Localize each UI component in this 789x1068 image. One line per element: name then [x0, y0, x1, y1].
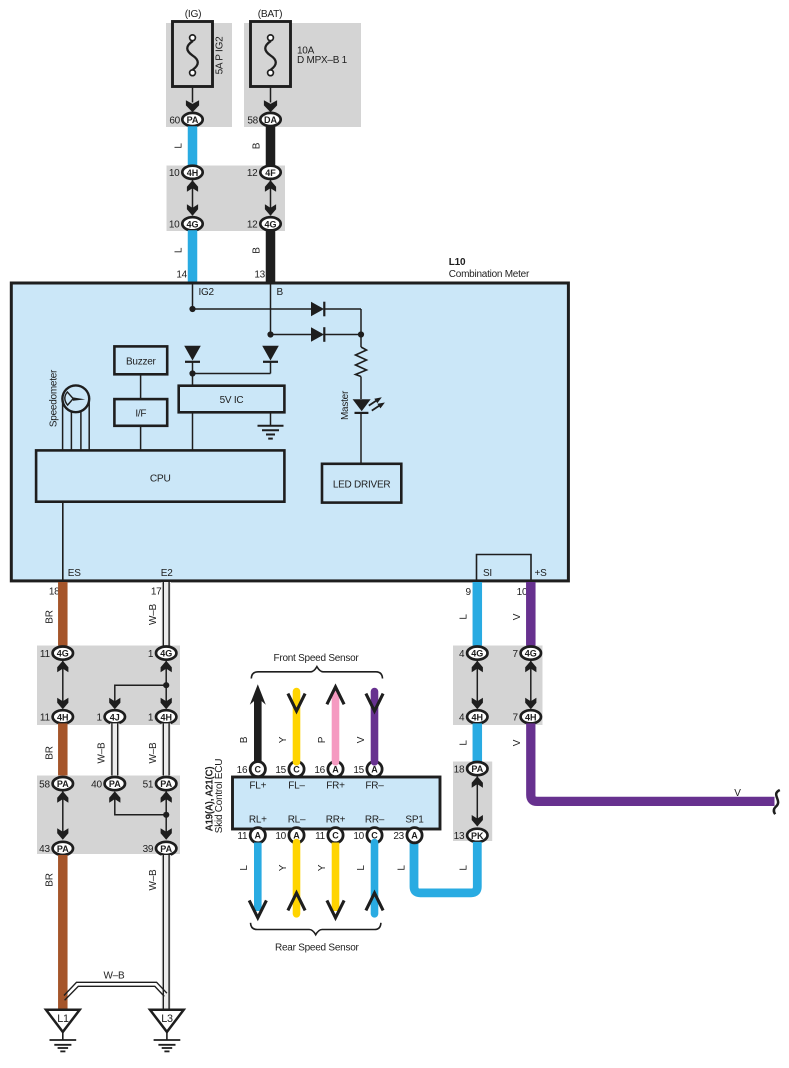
diode D1: [311, 302, 324, 317]
svg-text:D MPX–B 1: D MPX–B 1: [297, 55, 348, 66]
svg-text:4: 4: [459, 713, 465, 724]
5V IC block: [179, 386, 285, 413]
junction wire PA-PK: [476, 777, 478, 826]
svg-text:(BAT): (BAT): [258, 9, 283, 20]
svg-text:10: 10: [169, 168, 180, 179]
svg-text:51: 51: [143, 779, 154, 790]
connector PA pin 39: [156, 842, 176, 855]
svg-text:L: L: [356, 865, 367, 871]
svg-text:11: 11: [315, 831, 326, 842]
svg-text:L: L: [239, 865, 250, 871]
svg-text:I/F: I/F: [135, 408, 146, 419]
connector 4G pin 10: [182, 217, 202, 230]
connector PA pin 40: [105, 777, 125, 790]
svg-text:Rear Speed Sensor: Rear Speed Sensor: [275, 943, 360, 954]
svg-text:BR: BR: [45, 746, 56, 759]
svg-text:Skid Control ECU: Skid Control ECU: [214, 759, 225, 833]
connector 4F pin 12: [260, 166, 280, 179]
arrow into PA 40: [109, 791, 120, 803]
wire L blue SI to 4G: [473, 582, 483, 646]
arrow into 4G: [57, 661, 68, 673]
arrow into PA 39: [161, 828, 172, 840]
svg-text:C: C: [332, 831, 339, 841]
svg-text:13: 13: [254, 270, 265, 281]
diode D3 on IG2 line: [184, 346, 201, 362]
svg-text:BR: BR: [45, 873, 56, 886]
svg-text:A: A: [411, 831, 418, 841]
arrow into 4H: [472, 698, 483, 710]
pin circle 15 C: [289, 762, 304, 777]
svg-text:58: 58: [247, 115, 258, 126]
svg-text:Y: Y: [317, 864, 328, 871]
svg-text:PA: PA: [187, 115, 199, 125]
arrow into PA 43: [57, 828, 68, 840]
svg-text:L1: L1: [57, 1013, 69, 1025]
wire D4 down: [270, 362, 272, 374]
arrow into PA 51: [161, 791, 172, 803]
svg-text:A: A: [332, 765, 339, 775]
brace front speed sensor: [251, 667, 382, 679]
svg-text:Front Speed Sensor: Front Speed Sensor: [274, 653, 360, 664]
connector 4J pin 1: [105, 710, 125, 723]
diode D4 on B line: [262, 346, 279, 362]
svg-text:60: 60: [169, 115, 180, 126]
svg-text:W–B: W–B: [96, 742, 107, 764]
fuse block 5A P IG2: [166, 22, 232, 128]
speedometer wires to CPU: [63, 400, 90, 450]
svg-text:4G: 4G: [57, 649, 69, 659]
svg-text:IG2: IG2: [199, 287, 215, 298]
svg-text:1: 1: [148, 713, 154, 724]
svg-text:ES: ES: [68, 568, 81, 579]
svg-text:SI: SI: [483, 568, 492, 579]
ground of 5V IC: [258, 426, 284, 439]
svg-text:Y: Y: [278, 736, 289, 743]
svg-text:BR: BR: [45, 610, 56, 623]
junction wire 51PA-39PA: [165, 792, 167, 840]
svg-text:W–B: W–B: [148, 603, 159, 625]
wire right vertical: [360, 309, 362, 347]
arrow into PA 58: [57, 791, 68, 803]
wire D3 to 5V IC: [192, 362, 194, 386]
pin circle 11 A: [250, 828, 265, 843]
svg-text:E2: E2: [161, 568, 173, 579]
arrow into 4G: [187, 204, 198, 216]
wire fuse1 to connector PA: [192, 87, 194, 103]
svg-text:V: V: [512, 613, 523, 620]
arrow into 4J: [109, 698, 120, 710]
arrow chevron up FR+: [327, 687, 344, 704]
arrow chevron down FR-: [366, 694, 383, 711]
svg-text:16: 16: [237, 765, 248, 776]
arrow chevron down RR+: [327, 900, 344, 917]
wire B black FL+ arrow up: [250, 684, 266, 762]
svg-text:1: 1: [96, 713, 102, 724]
svg-text:A: A: [255, 831, 262, 841]
connector PA pin 43: [53, 842, 73, 855]
connector band left PA: [37, 776, 180, 855]
svg-text:1: 1: [148, 649, 154, 660]
branch wire to 4J: [115, 685, 166, 707]
svg-text:RR–: RR–: [365, 814, 385, 825]
wire BR pin18 to 4G: [58, 582, 68, 646]
speedometer gauge: [62, 385, 89, 412]
svg-text:L: L: [458, 865, 469, 871]
wire D2 to node: [324, 334, 361, 336]
connector DA pin 58: [260, 113, 280, 126]
svg-text:PA: PA: [57, 779, 69, 789]
wire D4 to D3 node: [193, 373, 271, 375]
svg-text:17: 17: [151, 587, 162, 598]
I/F block: [114, 399, 167, 426]
connector 4H pin 11: [53, 710, 73, 723]
pin circle 10 C: [367, 828, 382, 843]
svg-text:RL–: RL–: [288, 814, 306, 825]
node diode join: [358, 331, 364, 337]
pin B internal wire: [270, 283, 272, 335]
svg-text:FL+: FL+: [249, 780, 266, 791]
wire B to diode D2: [271, 334, 312, 336]
junction wire 4G-4H violet col: [530, 661, 532, 709]
svg-text:4G: 4G: [186, 219, 198, 229]
connector PA pin 58: [53, 777, 73, 790]
svg-text:DA: DA: [264, 115, 277, 125]
svg-text:CPU: CPU: [150, 473, 171, 484]
arrow into PA: [472, 776, 483, 788]
connector PA pin 18: [467, 762, 487, 775]
svg-text:16: 16: [314, 765, 325, 776]
wire W-B 4H to PA: [161, 723, 171, 777]
svg-text:4G: 4G: [264, 219, 276, 229]
connector PA pin 51: [156, 777, 176, 790]
connector PK pin 13: [467, 829, 487, 842]
wire BR 4H to PA: [58, 723, 68, 777]
wire B black 4G to pin 13: [266, 230, 276, 283]
svg-text:40: 40: [91, 779, 102, 790]
CPU block: [36, 450, 284, 501]
wire W-B PA to ground L3: [161, 855, 171, 1011]
arrow chevron up RL-: [288, 893, 305, 910]
svg-text:18: 18: [454, 764, 465, 775]
wire P pink FR+: [332, 693, 340, 762]
svg-text:13: 13: [454, 831, 465, 842]
arrow into 4F: [265, 180, 276, 192]
svg-text:10: 10: [169, 220, 180, 231]
connector band right 4G/4H: [453, 646, 543, 726]
arrow into PA pin 60: [186, 100, 199, 112]
pin circle 23 A: [407, 828, 422, 843]
svg-text:PA: PA: [471, 764, 483, 774]
wire W-B link between grounds: [64, 982, 167, 1000]
svg-text:B: B: [277, 287, 284, 298]
svg-text:11: 11: [40, 649, 51, 660]
svg-text:23: 23: [393, 831, 404, 842]
connector band 4H/4F to 4G/4G: [167, 166, 286, 232]
svg-text:A: A: [371, 765, 378, 775]
wire buzzer to I/F: [140, 374, 142, 399]
svg-text:RL+: RL+: [249, 814, 267, 825]
svg-text:14: 14: [176, 270, 187, 281]
svg-text:15: 15: [275, 765, 286, 776]
arrow into 4H: [187, 180, 198, 192]
svg-text:B: B: [252, 247, 263, 254]
pin circle 16 A: [328, 762, 343, 777]
svg-text:B: B: [252, 142, 263, 149]
svg-text:C: C: [255, 765, 262, 775]
connector 4G pin 11: [53, 647, 73, 660]
svg-text:PA: PA: [57, 844, 69, 854]
wire L blue RL+: [254, 843, 262, 912]
svg-text:L: L: [396, 865, 407, 871]
svg-text:7: 7: [512, 713, 518, 724]
svg-text:Master: Master: [340, 390, 351, 420]
svg-text:L10: L10: [449, 257, 466, 268]
svg-text:4F: 4F: [265, 168, 276, 178]
svg-text:11: 11: [237, 831, 248, 842]
svg-text:4H: 4H: [57, 712, 69, 722]
svg-text:B: B: [239, 736, 250, 743]
brace rear speed sensor: [251, 923, 381, 935]
branch wire 40PA to node: [115, 793, 166, 815]
svg-text:4G: 4G: [525, 649, 537, 659]
svg-text:12: 12: [247, 168, 258, 179]
wire L blue 4G to pin 14: [188, 230, 198, 283]
connector band right PA/PK: [453, 762, 492, 842]
svg-text:L: L: [174, 247, 185, 253]
svg-text:(IG): (IG): [185, 9, 202, 20]
wire 5V IC to ground: [270, 412, 272, 425]
node 40PA join: [163, 812, 169, 818]
connector 4H pin 4: [467, 710, 487, 723]
svg-text:10: 10: [353, 831, 364, 842]
svg-text:4H: 4H: [160, 712, 172, 722]
pin circle 10 A: [289, 828, 304, 843]
svg-text:C: C: [293, 765, 300, 775]
svg-text:15: 15: [353, 765, 364, 776]
svg-text:V: V: [356, 736, 367, 743]
svg-text:PA: PA: [160, 779, 172, 789]
svg-text:4H: 4H: [187, 168, 199, 178]
wire 5V IC to CPU: [192, 412, 194, 450]
svg-text:11: 11: [40, 713, 51, 724]
SI sub-box: [477, 555, 532, 581]
arrow chevron up RR-: [366, 893, 383, 910]
wire Y yellow RR+: [332, 843, 340, 912]
resistor R1: [356, 347, 367, 377]
svg-text:58: 58: [39, 779, 50, 790]
junction wire 4G-4H mid: [165, 661, 167, 709]
junction wire 4G-4H left: [62, 661, 64, 709]
pin IG2 internal wire: [192, 283, 194, 309]
wire L blue PA to 4H: [188, 126, 198, 166]
wire CPU to pin ES: [62, 502, 64, 581]
connector band left 4G/4H: [37, 646, 180, 726]
junction wire 58PA-43PA: [62, 792, 64, 840]
svg-text:7: 7: [512, 649, 518, 660]
buzzer block: [114, 346, 167, 374]
svg-text:4H: 4H: [525, 712, 537, 722]
wire BR PA to ground L1: [58, 855, 68, 1011]
ground L3: [150, 1010, 184, 1052]
arrow chevron down RL+: [249, 900, 266, 917]
svg-text:10: 10: [275, 831, 286, 842]
svg-text:4G: 4G: [160, 649, 172, 659]
junction wire 4G-4H blue col: [476, 661, 478, 709]
svg-text:+S: +S: [535, 568, 548, 579]
node B junction: [267, 331, 273, 337]
arrow into 4G mid: [161, 661, 172, 673]
fuse block 10A D MPX-B 1: [244, 22, 361, 128]
svg-text:W–B: W–B: [148, 869, 159, 891]
wire W-B pin17 to 4G: [161, 582, 171, 646]
svg-text:W–B: W–B: [104, 970, 126, 981]
pin circle 16 C: [250, 762, 265, 777]
svg-text:L3: L3: [161, 1013, 173, 1025]
arrow into 4G: [472, 661, 483, 673]
wire V violet FR-: [371, 692, 379, 762]
LED Master: [353, 397, 385, 413]
svg-text:4G: 4G: [471, 649, 483, 659]
svg-text:4: 4: [459, 649, 465, 660]
wire Y yellow FL-: [293, 692, 301, 762]
svg-text:LED DRIVER: LED DRIVER: [333, 479, 391, 490]
svg-text:RR+: RR+: [326, 814, 346, 825]
svg-text:L: L: [458, 614, 469, 620]
arrow into 4H violet: [525, 698, 536, 710]
svg-text:5A P IG2: 5A P IG2: [215, 36, 226, 75]
svg-text:V: V: [734, 788, 741, 799]
svg-text:FL–: FL–: [288, 780, 305, 791]
connector 4H pin 1: [156, 710, 176, 723]
svg-text:FR+: FR+: [326, 780, 345, 791]
arrow into 4H mid: [161, 698, 172, 710]
wire LED to LED DRIVER: [360, 414, 362, 464]
wire fuse2 to connector DA: [270, 87, 272, 103]
svg-text:L: L: [458, 740, 469, 746]
ground L1: [46, 1010, 80, 1052]
wire W-B 4J to PA: [110, 723, 120, 777]
pin circle 11 C: [328, 828, 343, 843]
connector PA pin 60: [182, 113, 202, 126]
svg-text:P: P: [317, 736, 328, 743]
svg-text:12: 12: [247, 220, 258, 231]
node IG2 junction: [189, 306, 195, 312]
connector 4G pin 12: [260, 217, 280, 230]
svg-text:SP1: SP1: [405, 814, 424, 825]
arrow into 4H: [57, 698, 68, 710]
junction wire 4H-4G: [192, 180, 194, 216]
arrow chevron down FL-: [288, 694, 305, 711]
LED DRIVER block: [322, 464, 401, 503]
arrow into 4G right: [265, 204, 276, 216]
junction wire 4F-4G: [270, 180, 272, 216]
pin circle 15 A: [367, 762, 382, 777]
skid control ECU block: [233, 777, 441, 829]
connector 4G pin 1: [156, 647, 176, 660]
arrow into PK: [472, 815, 483, 827]
svg-text:FR–: FR–: [365, 780, 384, 791]
node E2 branch: [163, 682, 169, 688]
wire IG2 to diode D1: [193, 308, 312, 310]
wire I/F to CPU: [140, 426, 142, 451]
connector 4G pin 4: [467, 647, 487, 660]
svg-text:PK: PK: [471, 831, 484, 841]
wire L blue 4H to PA: [473, 723, 483, 763]
svg-text:Combination Meter: Combination Meter: [449, 269, 530, 280]
svg-text:9: 9: [465, 587, 471, 598]
wire Y yellow RL-: [293, 843, 301, 914]
wire D1 to node: [324, 308, 361, 310]
svg-text:4H: 4H: [472, 712, 484, 722]
svg-text:Buzzer: Buzzer: [126, 356, 157, 367]
wire B black DA to 4F: [266, 126, 276, 166]
svg-text:Y: Y: [278, 864, 289, 871]
wire resistor to LED: [360, 377, 362, 400]
svg-text:39: 39: [143, 844, 154, 855]
diode D2: [311, 327, 324, 342]
combination meter block L10: [11, 283, 568, 581]
arrow into 4G violet: [525, 661, 536, 673]
node D3 junction: [189, 370, 195, 376]
svg-text:PA: PA: [109, 779, 121, 789]
svg-text:PA: PA: [160, 844, 172, 854]
svg-text:L: L: [174, 143, 185, 149]
wire L blue PK to SP1: [414, 842, 477, 893]
svg-text:43: 43: [39, 844, 50, 855]
wire L blue RR-: [371, 843, 379, 914]
svg-text:W–B: W–B: [148, 742, 159, 764]
wire V violet 4H to corner: [531, 723, 775, 801]
connector 4G pin 7: [521, 647, 541, 660]
svg-text:5V IC: 5V IC: [220, 395, 244, 406]
connector 4H pin 10: [182, 166, 202, 179]
svg-text:4J: 4J: [110, 712, 120, 722]
connector 4H pin 7: [521, 710, 541, 723]
wire V violet +S to 4G: [526, 582, 536, 646]
wire break symbol: [774, 790, 780, 814]
svg-text:V: V: [512, 739, 523, 746]
arrow into DA pin 58: [264, 100, 277, 112]
svg-text:Speedometer: Speedometer: [49, 369, 60, 427]
